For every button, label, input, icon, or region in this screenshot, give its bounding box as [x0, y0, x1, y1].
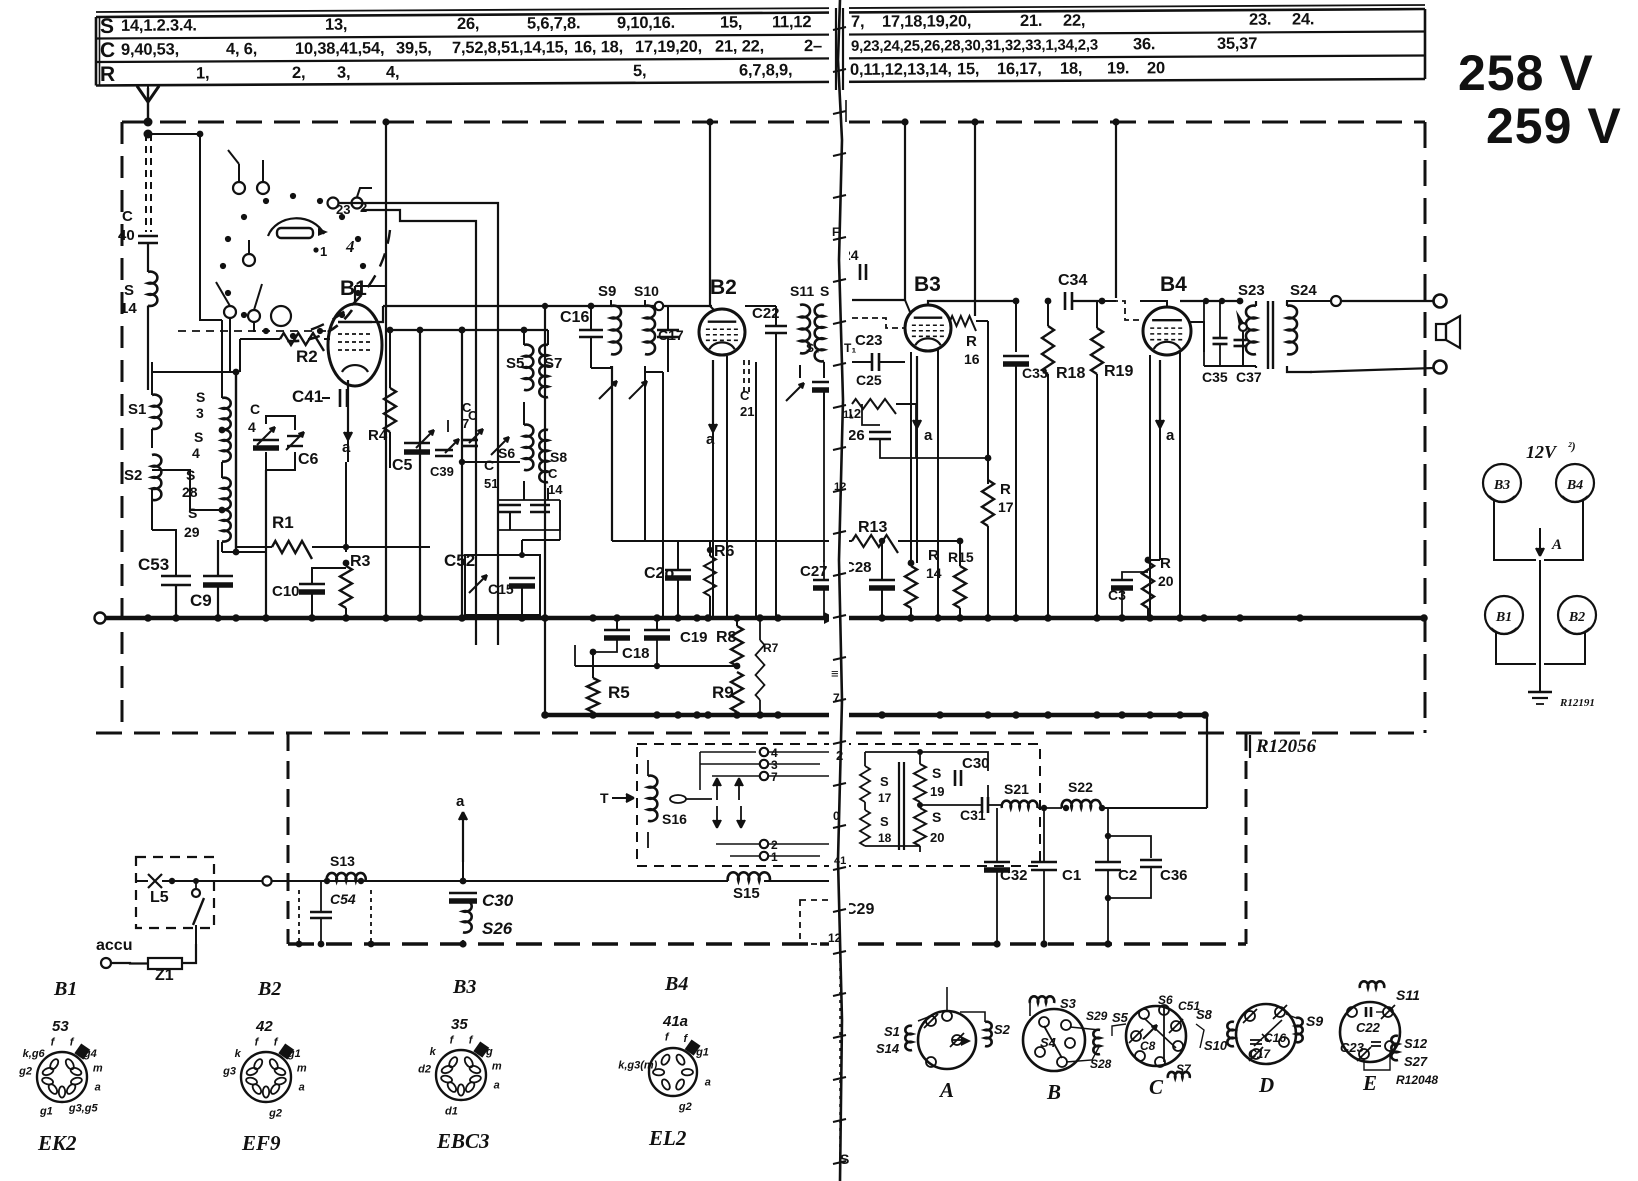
svg-text:E: E [1362, 1071, 1377, 1095]
label 1 [313, 247, 318, 252]
svg-text:g2: g2 [268, 1108, 282, 1120]
lower dashed box [287, 733, 290, 944]
IF unit dashed box [637, 744, 1040, 866]
variable arrow [491, 437, 509, 455]
svg-text:7.: 7. [833, 691, 843, 705]
dashed C54 box [298, 890, 300, 944]
svg-text:S9: S9 [598, 283, 616, 300]
svg-text:T: T [600, 790, 609, 806]
svg-text:g2: g2 [678, 1101, 692, 1113]
terminal 4 [760, 748, 768, 756]
transformer core [898, 762, 900, 850]
wire [1149, 355, 1151, 618]
svg-text:k: k [235, 1048, 242, 1060]
svg-text:258 V: 258 V [1458, 45, 1594, 101]
svg-text:S: S [124, 282, 134, 299]
wire [152, 530, 176, 570]
svg-text:1: 1 [320, 244, 327, 259]
wire [745, 305, 776, 307]
svg-text:41a: 41a [662, 1013, 688, 1030]
svg-text:18,: 18, [1060, 60, 1082, 78]
wire [1494, 500, 1536, 560]
svg-text:0: 0 [833, 809, 840, 823]
anode lead a [712, 360, 714, 432]
svg-text:1,: 1, [196, 64, 209, 82]
svg-text:d2: d2 [418, 1064, 431, 1076]
svg-text:14: 14 [926, 565, 942, 581]
svg-text:T₁: T₁ [844, 341, 856, 355]
svg-text:S: S [100, 15, 114, 38]
switch [192, 889, 200, 897]
svg-text:S12: S12 [1404, 1036, 1428, 1051]
lamp X [148, 874, 162, 888]
wire R1 row [222, 551, 266, 553]
wire [221, 462, 223, 478]
wire [611, 366, 613, 541]
wire [463, 880, 660, 882]
svg-text:16,17,: 16,17, [997, 60, 1042, 78]
svg-text:R19: R19 [1104, 363, 1133, 380]
svg-text:24.: 24. [1292, 10, 1314, 28]
svg-text:26,: 26, [457, 15, 479, 33]
svg-text:9,40,53,: 9,40,53, [121, 41, 179, 59]
svg-text:R9: R9 [712, 683, 734, 702]
svg-text:259 V: 259 V [1486, 98, 1622, 154]
svg-text:2: 2 [836, 748, 843, 763]
svg-text:2,: 2, [292, 64, 305, 82]
svg-text:3: 3 [196, 405, 204, 421]
svg-text:S8: S8 [550, 449, 567, 465]
svg-text:R6: R6 [714, 543, 735, 560]
wire [221, 320, 223, 398]
svg-text:S29: S29 [1086, 1009, 1108, 1023]
svg-text:C: C [100, 39, 115, 62]
svg-text:1₁: 1₁ [843, 409, 854, 421]
wire [662, 372, 664, 618]
header row C [100, 33, 1257, 62]
svg-text:S22: S22 [1068, 779, 1093, 795]
svg-text:B1: B1 [1495, 610, 1512, 625]
svg-text:R18: R18 [1056, 365, 1085, 382]
wire [611, 306, 613, 541]
svg-text:g2: g2 [18, 1066, 32, 1078]
svg-text:B2: B2 [1568, 610, 1585, 625]
header row S [100, 8, 1314, 38]
svg-text:4: 4 [192, 445, 200, 461]
svg-text:S10: S10 [1204, 1038, 1228, 1053]
header table frame [96, 9, 1425, 17]
wire [1206, 715, 1208, 808]
resistor R12 [852, 399, 896, 414]
svg-text:20: 20 [1158, 573, 1174, 589]
svg-text:S3: S3 [1060, 996, 1077, 1011]
svg-text:C35: C35 [1202, 369, 1228, 385]
svg-text:C: C [548, 466, 558, 481]
svg-text:20: 20 [1147, 59, 1165, 77]
dashed grid link B4 [1102, 301, 1140, 320]
svg-text:B2: B2 [710, 276, 737, 299]
svg-text:12: 12 [834, 481, 846, 493]
svg-text:3,: 3, [337, 64, 350, 82]
main bus [95, 613, 106, 624]
connector D [1236, 1004, 1296, 1064]
svg-text:S11: S11 [1396, 987, 1420, 1003]
wire [823, 420, 825, 562]
svg-text:B4: B4 [1160, 273, 1187, 296]
svg-text:g: g [485, 1046, 493, 1058]
svg-text:S2: S2 [124, 467, 142, 484]
valve B3 heater [1483, 464, 1521, 502]
transformer core [1267, 301, 1269, 369]
svg-text:C17: C17 [1248, 1047, 1271, 1061]
svg-text:C19: C19 [680, 629, 708, 646]
connector E [1340, 1002, 1400, 1062]
svg-text:C30: C30 [962, 755, 990, 772]
wire [235, 370, 237, 552]
svg-text:R: R [1160, 555, 1171, 572]
anode lead a [347, 380, 349, 440]
wire [700, 763, 760, 765]
wire [575, 665, 737, 667]
wire [726, 356, 728, 618]
svg-text:7,: 7, [851, 13, 864, 31]
svg-text:29: 29 [184, 524, 200, 540]
anode lead a [916, 356, 918, 428]
svg-text:5,: 5, [633, 62, 646, 80]
svg-text:23: 23 [336, 202, 350, 217]
svg-text:4: 4 [345, 237, 355, 256]
grid dashed AVC [178, 330, 326, 332]
svg-text:26: 26 [848, 427, 865, 444]
svg-text:S: S [840, 1151, 849, 1167]
valve B2 heater [1558, 596, 1596, 634]
svg-text:4: 4 [248, 419, 256, 435]
svg-text:C1: C1 [1062, 867, 1081, 884]
svg-text:a: a [924, 427, 933, 444]
svg-text:A: A [938, 1078, 954, 1102]
svg-text:S1: S1 [884, 1024, 900, 1039]
svg-text:C30: C30 [482, 891, 514, 910]
wire [865, 751, 920, 753]
gang terminal 23 [328, 198, 339, 209]
speaker [1436, 324, 1446, 340]
svg-text:21, 22,: 21, 22, [715, 37, 764, 55]
svg-text:R7: R7 [763, 641, 779, 655]
svg-text:S: S [932, 765, 941, 781]
svg-text:0,11,12,13,14,: 0,11,12,13,14, [850, 60, 952, 79]
svg-text:42: 42 [255, 1018, 273, 1035]
svg-text:g4: g4 [83, 1048, 97, 1060]
svg-text:17,18,19,20,: 17,18,19,20, [882, 12, 971, 30]
wire [1102, 300, 1116, 302]
svg-text:a: a [456, 793, 465, 810]
svg-text:5,6,7,8.: 5,6,7,8. [527, 14, 581, 32]
svg-text:R12056: R12056 [1255, 736, 1317, 757]
svg-text:S21: S21 [1004, 781, 1029, 797]
wire to output terminals [1286, 300, 1330, 302]
svg-text:C29: C29 [845, 901, 874, 918]
arrow A [1539, 528, 1541, 556]
svg-text:S: S [880, 774, 889, 789]
battery box L5 [136, 857, 214, 928]
svg-text:B4: B4 [1566, 478, 1583, 493]
antenna [137, 86, 159, 102]
svg-text:g1: g1 [287, 1048, 301, 1060]
svg-text:accu: accu [96, 937, 132, 954]
switch S23 lever [1239, 323, 1247, 331]
svg-text:S5: S5 [506, 355, 524, 372]
svg-text:19.: 19. [1107, 59, 1129, 77]
svg-text:C16: C16 [560, 309, 589, 326]
svg-text:R1: R1 [272, 513, 294, 532]
svg-text:L5: L5 [150, 889, 169, 906]
wire [462, 461, 520, 463]
svg-text:S13: S13 [330, 853, 355, 869]
svg-text:d1: d1 [445, 1106, 458, 1118]
svg-text:17,19,20,: 17,19,20, [635, 38, 702, 56]
svg-text:C5: C5 [392, 457, 413, 474]
svg-text:S5: S5 [1112, 1010, 1129, 1025]
svg-text:R2: R2 [296, 347, 318, 366]
variable arrows [599, 381, 617, 399]
svg-text:C25: C25 [856, 372, 882, 388]
svg-text:C41: C41 [292, 387, 323, 406]
svg-text:S: S [880, 814, 889, 829]
svg-text:C52: C52 [444, 551, 475, 570]
wire antenna to tuning [148, 133, 200, 135]
svg-text:C: C [468, 408, 478, 423]
svg-text:C37: C37 [1236, 369, 1262, 385]
svg-text:13,: 13, [325, 16, 347, 34]
svg-text:R12048: R12048 [1396, 1073, 1438, 1087]
wire [799, 365, 801, 378]
svg-text:C34: C34 [1058, 272, 1087, 289]
svg-text:a: a [705, 1076, 711, 1088]
svg-text:S: S [196, 389, 205, 405]
svg-text:B3: B3 [452, 976, 476, 998]
svg-text:C8: C8 [1140, 1039, 1156, 1053]
junction dots [993, 940, 1000, 947]
valve B1 heater [1485, 596, 1523, 634]
wire [419, 330, 421, 618]
svg-text:23.: 23. [1249, 11, 1271, 29]
svg-text:g3,g5: g3,g5 [68, 1102, 99, 1114]
svg-text:2–: 2– [804, 37, 822, 55]
svg-text:7,52,8,51,14,15,: 7,52,8,51,14,15, [452, 38, 568, 57]
svg-text:7: 7 [771, 770, 778, 784]
wire [345, 462, 347, 552]
wire grid feed [497, 222, 499, 645]
tuning capacitor rotor [360, 263, 366, 269]
wire B3 anode [928, 301, 1016, 305]
svg-text:21.: 21. [1020, 12, 1042, 30]
svg-text:C22: C22 [1356, 1020, 1381, 1035]
wire [338, 203, 498, 222]
wire [677, 618, 679, 666]
wire long 306 [383, 305, 712, 307]
svg-text:k: k [430, 1046, 437, 1058]
anode feed a [462, 812, 464, 862]
valve B4 heater [1556, 464, 1594, 502]
wire [769, 751, 834, 753]
svg-text:²): ²) [1568, 439, 1576, 453]
svg-text:F: F [832, 225, 839, 239]
svg-text:1: 1 [771, 850, 778, 864]
svg-text:B1: B1 [53, 978, 77, 1000]
terminal 3 [760, 760, 768, 768]
svg-text:g3: g3 [222, 1066, 236, 1078]
svg-text:17: 17 [998, 499, 1014, 515]
svg-text:a: a [342, 439, 351, 456]
svg-text:k,g6: k,g6 [23, 1048, 46, 1060]
wire [915, 404, 917, 458]
svg-text:R: R [1000, 481, 1011, 498]
wire to S13 [214, 880, 262, 882]
svg-text:C: C [484, 457, 494, 473]
svg-text:R5: R5 [608, 683, 630, 702]
svg-text:R12191: R12191 [1559, 697, 1595, 709]
svg-text:C9: C9 [190, 591, 212, 610]
fold artifact [829, 0, 849, 1181]
svg-text:4, 6,: 4, 6, [226, 40, 257, 58]
svg-text:g1: g1 [695, 1046, 709, 1058]
svg-text:16: 16 [964, 351, 980, 367]
svg-text:S6: S6 [498, 445, 515, 461]
svg-text:C18: C18 [622, 645, 650, 662]
svg-text:EL2: EL2 [648, 1126, 687, 1150]
svg-text:a: a [1166, 427, 1175, 444]
svg-text:20: 20 [930, 830, 944, 845]
svg-text:S6: S6 [1158, 993, 1173, 1007]
gang terminal 2 [352, 198, 363, 209]
svg-text:22,: 22, [1063, 12, 1085, 30]
svg-text:C6: C6 [298, 451, 319, 468]
svg-text:R: R [100, 63, 115, 86]
svg-text:B2: B2 [257, 978, 281, 1000]
wire [1180, 300, 1240, 302]
terminal 7 [760, 772, 768, 780]
svg-text:C54: C54 [330, 891, 356, 907]
svg-text:g1: g1 [39, 1106, 53, 1118]
svg-text:C: C [1149, 1075, 1164, 1099]
wire [544, 306, 546, 715]
terminal 1 [760, 852, 768, 860]
svg-text:15,: 15, [720, 14, 742, 32]
coil at C bottom [1196, 1024, 1204, 1048]
wire [1496, 632, 1536, 664]
svg-text:S9: S9 [1306, 1013, 1323, 1029]
svg-text:B4: B4 [664, 973, 688, 995]
svg-text:S24: S24 [1290, 282, 1317, 299]
svg-text:C39: C39 [430, 464, 454, 479]
wire [1072, 300, 1102, 302]
svg-text:9,10,16.: 9,10,16. [617, 14, 675, 32]
svg-text:a: a [95, 1082, 101, 1094]
variable arrow [786, 383, 804, 401]
header row R [100, 57, 1165, 86]
svg-text:4,: 4, [386, 63, 399, 81]
svg-text:14: 14 [120, 300, 137, 317]
svg-text:36.: 36. [1133, 35, 1155, 53]
svg-text:S11: S11 [790, 283, 814, 299]
svg-text:35: 35 [451, 1016, 468, 1033]
svg-text:14,1.2.3.4.: 14,1.2.3.4. [121, 16, 197, 34]
svg-text:S10: S10 [634, 283, 659, 299]
svg-text:C23: C23 [855, 332, 883, 349]
svg-text:S: S [820, 283, 829, 299]
svg-text:D: D [1258, 1073, 1274, 1097]
svg-text:C: C [122, 208, 133, 225]
svg-text:9,23,24,25,26,28,30,31,32,33,1: 9,23,24,25,26,28,30,31,32,33,1,34,2,3 [851, 37, 1098, 55]
svg-text:B1: B1 [340, 277, 367, 300]
connector C [1126, 1006, 1186, 1066]
svg-text:39,5,: 39,5, [396, 39, 432, 57]
svg-text:S2: S2 [994, 1022, 1011, 1037]
svg-text:S14: S14 [876, 1041, 900, 1056]
svg-text:S: S [194, 429, 203, 445]
wire vertical from S4 [175, 530, 177, 576]
wire [755, 362, 757, 618]
arrows [716, 778, 718, 800]
svg-text:53: 53 [52, 1018, 69, 1035]
svg-text:C53: C53 [138, 555, 169, 574]
svg-text:R13: R13 [858, 519, 887, 536]
svg-text:B: B [1046, 1080, 1061, 1104]
svg-text:k,g3(m): k,g3(m) [618, 1060, 657, 1072]
wire [385, 122, 387, 286]
connector A [918, 1011, 976, 1069]
svg-text:a: a [299, 1082, 305, 1094]
svg-text:R: R [966, 333, 977, 350]
svg-text:18: 18 [878, 831, 892, 845]
anode lead a [1159, 360, 1161, 428]
svg-text:EF9: EF9 [241, 1131, 281, 1155]
svg-text:21: 21 [740, 404, 754, 419]
wire [498, 499, 560, 501]
wire [1204, 365, 1256, 367]
svg-text:17: 17 [878, 791, 892, 805]
svg-text:35,37: 35,37 [1217, 35, 1257, 53]
svg-text:S7: S7 [544, 355, 562, 372]
svg-text:40: 40 [118, 227, 135, 244]
svg-text:R3: R3 [350, 553, 371, 570]
terminal 2 [760, 840, 768, 848]
svg-text:B3: B3 [1493, 478, 1510, 493]
svg-text:C: C [250, 401, 260, 417]
svg-text:6,7,8,9,: 6,7,8,9, [739, 61, 793, 79]
wire [937, 350, 939, 618]
grid dashed B3 [852, 318, 904, 328]
svg-text:S8: S8 [1196, 1007, 1213, 1022]
svg-text:S26: S26 [482, 919, 513, 938]
svg-text:12: 12 [828, 931, 842, 945]
svg-text:S15: S15 [733, 885, 760, 902]
svg-text:S16: S16 [662, 811, 687, 827]
wire [522, 539, 560, 541]
svg-text:m: m [297, 1062, 307, 1074]
svg-text:m: m [93, 1062, 103, 1074]
second bus [545, 713, 1207, 718]
svg-text:a: a [494, 1080, 500, 1092]
svg-text:S1: S1 [128, 401, 146, 418]
svg-text:m: m [492, 1060, 502, 1072]
svg-text:EBC3: EBC3 [436, 1129, 490, 1153]
svg-text:14: 14 [548, 482, 563, 497]
svg-text:C23: C23 [1340, 1040, 1365, 1055]
wire [461, 330, 463, 618]
ground [1528, 691, 1552, 694]
svg-text:15,: 15, [957, 60, 979, 78]
